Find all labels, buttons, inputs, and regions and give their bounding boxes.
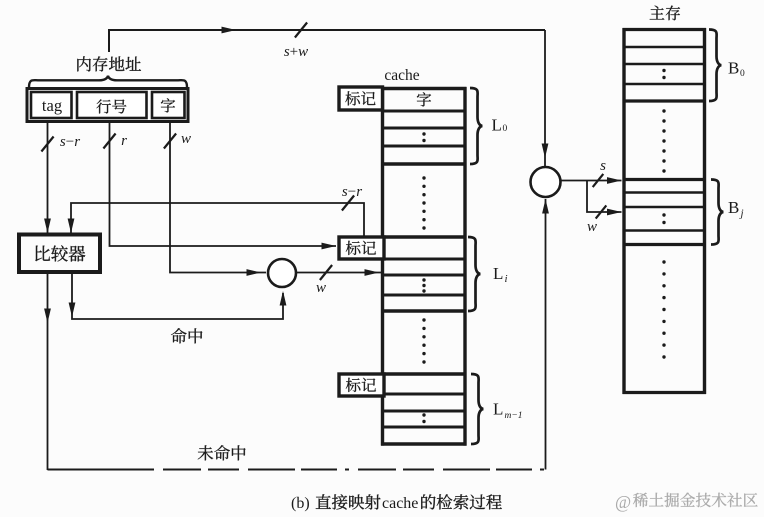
wire s+w top line [109, 30, 545, 52]
slash s-r [41, 137, 53, 152]
arrow on s+w line [222, 27, 237, 34]
memory column verticals [622, 28, 625, 394]
svg-text:(b): (b) [291, 495, 310, 512]
address cell 字 [152, 92, 185, 118]
label 行号 [96, 99, 111, 113]
svg-text:0: 0 [740, 69, 745, 79]
cache row line Li-4 [381, 309, 467, 312]
cache row line L0-1 [381, 110, 467, 113]
wire line-number field down, right to tag box Li [110, 121, 337, 246]
svg-text:tag: tag [42, 96, 62, 115]
wire word out to cache with slash w [296, 272, 381, 274]
wire tag field down to comparator [47, 121, 49, 233]
slash s-r feedback [342, 196, 354, 211]
svg-text:L: L [493, 264, 503, 283]
wire s+w down into merge circle [544, 30, 546, 166]
svg-text:s+w: s+w [284, 44, 308, 60]
svg-text:B: B [728, 198, 739, 217]
wire hit: comparator to word-select circle [72, 273, 283, 320]
brace Li [468, 237, 481, 311]
cache dots gap1 [422, 176, 425, 179]
svg-text:0: 0 [503, 124, 508, 134]
svg-text:i: i [505, 273, 508, 285]
cache tag box Li [339, 237, 384, 259]
memory bottom line [623, 391, 707, 394]
memory row line B0-3 [623, 83, 707, 86]
cache row line L0-4 [381, 162, 467, 165]
address box outer [27, 89, 188, 122]
memory row line Bj-2 [623, 206, 707, 209]
cache row line Lm-1-4 [381, 442, 467, 445]
memory row line B0-0 [623, 28, 707, 31]
cache row line Li-1 [381, 258, 467, 261]
svg-text:m−1: m−1 [505, 411, 523, 421]
address cell 行号 [77, 92, 147, 118]
memory row line B0-2 [623, 63, 707, 66]
svg-text:w: w [181, 131, 191, 147]
cache row line L0-0 [381, 87, 467, 90]
caption 直接映射 [316, 494, 331, 509]
svg-text:L: L [493, 400, 503, 419]
slash w [164, 134, 176, 149]
label 主存 [650, 6, 665, 20]
svg-text:cache: cache [384, 67, 419, 84]
brace L0 [470, 88, 483, 164]
memory dots row B0 [662, 69, 665, 72]
memory row line Bj-0 [623, 178, 707, 181]
brace Bj [711, 180, 724, 245]
brace B0 [709, 30, 722, 102]
cache row line L0-3 [381, 145, 467, 148]
cache row line Lm-1-2 [381, 410, 467, 413]
cache tag box Lm-1 [339, 374, 384, 396]
cache dots row Li [422, 278, 425, 281]
cache row line Lm-1-3 [381, 426, 467, 429]
svg-text:r: r [121, 133, 127, 149]
memory row line Bj-4 [623, 243, 707, 246]
svg-text:s: s [600, 158, 606, 174]
wire word field down, right to word-select circle [170, 121, 266, 273]
brace Lm-1 [471, 374, 484, 444]
wire miss up to merge circle [545, 199, 547, 470]
label 字 (address) [161, 98, 175, 112]
word-select circle [268, 259, 296, 287]
label 未命中 [198, 445, 213, 460]
svg-text:L: L [492, 116, 502, 135]
wire s-r feedback from cache tag Li to comparator [71, 203, 364, 237]
merge circle [531, 167, 561, 197]
cache tag box L0 [339, 87, 383, 110]
label 字 (cache header) [417, 92, 431, 106]
svg-text:cache: cache [382, 495, 418, 512]
memory row line Bj-1 [623, 191, 707, 194]
memory dots row Bj [662, 213, 665, 216]
cache row line Lm-1-0 [381, 372, 467, 375]
svg-text:w: w [587, 219, 597, 235]
comparator box 比较器 [19, 235, 100, 273]
svg-text:@: @ [615, 492, 631, 512]
label 命中 [171, 328, 187, 343]
memory row line B0-4 [623, 99, 707, 102]
memory dots gap1 [662, 109, 665, 112]
svg-text:s−r: s−r [60, 134, 80, 150]
caption 的检索过程 [421, 494, 435, 509]
memory dots gap2 [662, 260, 665, 263]
wire merge circle to memory (w branch) [587, 181, 622, 213]
wire miss: comparator down [47, 273, 49, 471]
slash s+w [295, 23, 307, 38]
cache row line Li-2 [381, 274, 467, 277]
wire merge circle to memory (s branch) [561, 180, 622, 182]
wire miss bottom line [48, 469, 151, 471]
memory row line B0-1 [623, 46, 707, 49]
watermark cjk [633, 493, 648, 507]
cache row line L0-2 [381, 127, 467, 130]
cache column verticals [381, 87, 384, 446]
brace over address box [29, 76, 187, 88]
svg-text:B: B [728, 59, 739, 78]
cache dots row Lm-1 [422, 413, 425, 416]
cache row line Lm-1-1 [381, 393, 467, 396]
address cell tag [31, 92, 72, 118]
cache row line Li-0 [381, 235, 467, 238]
cache dots row L0 [422, 132, 425, 135]
cache dots gap2 [422, 318, 425, 321]
svg-text:s−r: s−r [342, 184, 362, 200]
slash r [103, 134, 115, 149]
cache row line Li-3 [381, 294, 467, 297]
memory row line Bj-3 [623, 229, 707, 232]
svg-text:w: w [316, 280, 326, 296]
label 内存地址 [77, 56, 91, 71]
